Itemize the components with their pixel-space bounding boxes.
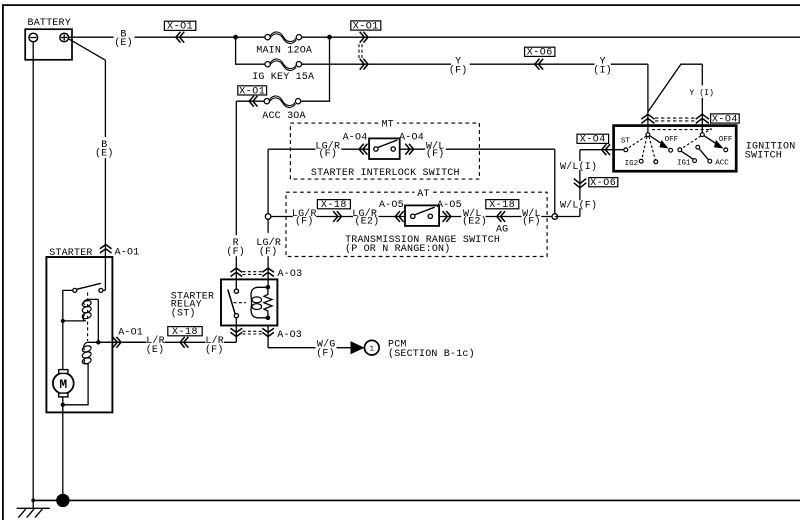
wire MT interlock feed LG/R [268,149,555,287]
svg-text:Y (I): Y (I) [689,88,714,98]
wire battery positive to starter B(E) [69,39,106,291]
svg-text:X-O6: X-O6 [527,48,553,59]
svg-text:A-O3: A-O3 [277,330,302,341]
svg-text:(E): (E) [146,344,165,356]
node battery negative / rail junction [31,499,35,503]
wire coil2 return [63,364,88,405]
svg-text:X-O4: X-O4 [712,114,738,125]
svg-text:A-O4: A-O4 [343,133,368,144]
node junction MT/AT right [552,214,558,220]
wire S terminal out [87,341,146,343]
fuse MAIN 120A [256,32,312,56]
wire motor to ground [62,397,64,501]
svg-text:(F): (F) [295,215,314,227]
node relay coil bottom junction [266,316,271,321]
svg-text:1: 1 [370,345,375,353]
svg-text:(E): (E) [95,147,114,159]
svg-text:(F): (F) [318,148,337,160]
node junction main/IG KEY [233,35,238,40]
connector X-06 [525,47,555,69]
connector A-03 upper [231,268,303,280]
svg-text:IG1: IG1 [677,160,691,168]
svg-text:(F): (F) [316,348,335,360]
ignition rotor 1 [621,130,712,168]
node starter S junction [96,340,100,344]
connector A-01 starter B [100,245,140,259]
starter magnetic switch contacts [73,283,106,292]
starter interlock switch box MT [290,118,479,179]
svg-text:IG2: IG2 [625,160,639,168]
svg-text:A-O3: A-O3 [278,269,303,280]
wire AT range switch row [271,216,555,218]
svg-text:MT: MT [381,120,393,131]
svg-text:AG: AG [496,225,508,236]
svg-text:X-O4: X-O4 [580,135,606,146]
svg-text:(E2): (E2) [354,215,379,227]
svg-text:(E): (E) [114,37,133,49]
connector X-04 ST wire [577,134,610,155]
svg-text:M: M [59,377,67,392]
starter M1 [46,248,112,413]
svg-text:A-O4: A-O4 [399,133,424,144]
svg-text:ACC: ACC [715,160,729,168]
svg-text:OFF: OFF [719,136,733,144]
svg-text:X-O1: X-O1 [353,21,379,32]
svg-text:X-O6: X-O6 [590,178,616,189]
relay resistor [264,287,272,318]
svg-text:X-18: X-18 [321,200,347,211]
svg-text:(F): (F) [426,148,445,160]
svg-text:W/L(I): W/L(I) [560,161,597,173]
connector X-01 main [164,21,195,42]
node motor ground junction [61,403,65,407]
wire IG KEY branch [236,37,648,134]
svg-text:A-O1: A-O1 [118,328,143,339]
wire battery negative to ground [32,42,34,508]
svg-text:(ST): (ST) [171,307,196,319]
connector X-06 lower [574,178,618,190]
ground rail wire [33,499,800,501]
svg-text:BATTERY: BATTERY [28,18,71,29]
node relay coil top junction [266,285,271,290]
fuse IG KEY 15A [252,59,314,83]
svg-text:A-O5: A-O5 [437,200,462,211]
switch S3 range contacts [405,205,439,226]
coil hold-in L2 [81,342,91,365]
PCM output symbol [351,340,475,360]
svg-text:IG KEY 15A: IG KEY 15A [252,72,314,83]
battery BT1 [25,18,72,60]
connector X-01 ACC [238,86,267,107]
svg-text:OFF: OFF [665,136,679,144]
plunger dashed link [87,293,89,342]
svg-text:A-O5: A-O5 [379,200,404,211]
wire ACC branch [236,37,329,291]
svg-text:(F): (F) [226,246,245,258]
switch S2 interlock contacts [369,138,400,159]
transmission range switch box AT [286,188,547,257]
relay coil [251,287,268,318]
ground [17,508,50,517]
svg-text:A-O1: A-O1 [115,248,140,259]
connector A-03 lower [231,328,303,341]
starter relay K1 box [171,279,278,325]
svg-text:(E2): (E2) [462,215,487,227]
connector X-18 range left [317,200,350,222]
svg-text:X-18: X-18 [489,200,515,211]
svg-text:(P OR N RANGE:ON): (P OR N RANGE:ON) [345,243,450,255]
wire B(E) battery positive main feed [69,36,800,38]
wire relay coil out W/G to PCM [268,326,351,348]
fuse ACC 30A [262,96,305,122]
svg-text:SWITCH: SWITCH [745,151,782,162]
connector X-04 ignition feed [641,114,739,126]
svg-text:(F): (F) [205,344,224,356]
svg-text:W/L(F): W/L(F) [560,200,597,212]
relay switch contacts [228,289,246,318]
node junction MT/AT left [265,214,271,220]
svg-text:(F): (F) [522,215,541,227]
connector X-18 range right [486,200,519,236]
svg-text:ST: ST [621,138,631,146]
wire ignition second feed [648,64,702,134]
ignition rotor 2 [677,128,732,167]
node starter ground junction [56,494,69,507]
wire relay output L/R to starter [98,318,236,343]
svg-text:X-O1: X-O1 [239,86,265,97]
svg-text:(F): (F) [259,246,278,258]
node junction main/ACC [327,35,332,40]
wire coil1 bottom link [63,320,85,322]
connector A-01 starter S [113,328,143,348]
wire coil1 top link [89,299,99,342]
coil pull-in L1 [81,299,91,321]
motor M [53,370,74,397]
svg-text:X-18: X-18 [172,327,198,338]
svg-text:STARTER INTERLOCK SWITCH: STARTER INTERLOCK SWITCH [311,168,460,179]
svg-text:(SECTION B-1c): (SECTION B-1c) [388,348,475,360]
ignition switch SW1 [614,126,796,172]
node coil1 tap [61,319,65,323]
wire starter motor feed [63,290,73,369]
svg-text:AT: AT [417,189,429,200]
connector X-01 right pair [351,21,381,70]
connector X-18 starter [168,327,202,348]
svg-text:ACC 3OA: ACC 3OA [262,111,305,122]
svg-text:(I): (I) [593,64,612,76]
svg-text:(F): (F) [449,64,468,76]
svg-text:X-O1: X-O1 [167,22,193,33]
svg-text:MAIN 12OA: MAIN 12OA [256,45,312,56]
wire ignition ST to junction W/L [555,150,626,217]
